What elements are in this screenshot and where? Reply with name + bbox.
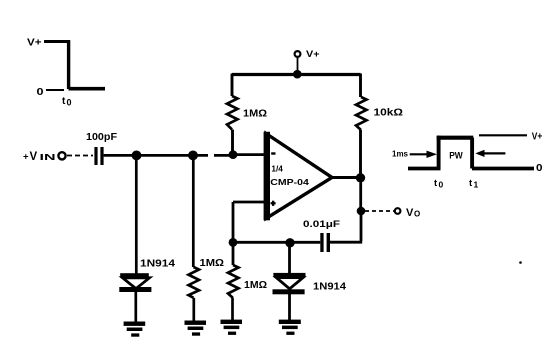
ground under R5 [221,320,243,335]
wire down to resistor R2 [192,155,195,267]
node junction at VO tap [357,207,366,216]
feedback wire capacitor to plus input node [233,241,320,244]
op-amp U1 left edge [264,132,270,221]
wire to VO terminal (dashed) [365,210,394,212]
svg-text:1: 1 [474,180,479,190]
svg-text:V: V [406,207,414,219]
svg-text:V: V [30,151,38,163]
wire resistor R5 to ground [231,298,234,320]
VO output terminal [395,208,401,214]
capacitor C2 plates [320,233,323,252]
V+ supply terminal [295,51,301,57]
op-amp U1 plus sign [271,201,276,206]
wire down to resistor R5 [232,242,235,265]
arrow pointing left at falling edge [475,150,505,157]
resistor R3 1M zigzag [227,96,238,130]
resistor R4 10k zigzag [356,97,367,130]
svg-text:0: 0 [536,163,543,174]
wire plus input down to feedback node [232,202,235,243]
output pulse rising edge [437,136,441,169]
svg-text:10kΩ: 10kΩ [374,107,404,119]
output pulse waveform baseline left [408,167,441,171]
svg-text:+: + [23,152,29,163]
resistor R2 1M zigzag [189,267,200,298]
diode D2 triangle [276,278,303,289]
resistor R5 1M zigzag [228,265,239,298]
svg-text:1MΩ: 1MΩ [244,279,267,291]
input step waveform falling edge [67,40,70,89]
wire from input terminal (dashed) [67,155,93,157]
svg-text:0: 0 [37,87,45,98]
ground under D2 [279,320,301,335]
node junction at diode D1 [132,151,142,161]
input step waveform top level line [44,40,69,43]
svg-text:V+: V+ [27,38,42,49]
svg-text:1N914: 1N914 [140,259,176,270]
wire signal line to comparator [104,153,266,157]
svg-text:1MΩ: 1MΩ [243,109,267,120]
svg-text:1N914: 1N914 [313,282,346,293]
wire diode D2 to ground [288,294,291,320]
arrow pointing right at rising edge [410,151,437,158]
output pulse top [437,136,474,140]
svg-text:IN: IN [40,152,56,162]
diode D1 cathode bar [119,287,151,292]
svg-text:V+: V+ [532,132,543,143]
wire output node down [359,178,362,211]
diode D1 triangle [123,278,150,289]
input step waveform zero axis tick [46,89,64,91]
svg-text:0: 0 [67,98,72,108]
+VIN input terminal [58,152,65,159]
output pulse baseline right [472,167,534,171]
svg-text:O: O [414,210,420,219]
wire plus input [233,201,266,204]
input step waveform bottom level line [69,87,106,91]
node junction on supply rail [293,70,302,79]
node junction at output [356,173,365,182]
node junction at feedback / R5 [229,238,238,247]
capacitor C1 100pF plates [94,147,97,165]
node junction at resistor R1 / minus input [229,150,238,159]
svg-text:0: 0 [439,180,444,190]
wire down to diode D2 [288,243,291,273]
svg-text:100pF: 100pF [86,131,118,143]
diode D2 cathode bar [273,289,305,294]
node junction at resistor R2 [188,151,198,161]
ground under R2 [185,321,207,336]
top supply rail wire [232,73,361,76]
svg-text:1MΩ: 1MΩ [200,258,225,269]
svg-text:CMP-04: CMP-04 [270,177,309,187]
wire rail down to resistor R3 [231,74,234,97]
diode D2 anode bar [273,273,305,277]
wire diode D1 to ground [134,292,137,322]
svg-text:1/4: 1/4 [271,163,283,173]
wire resistor R3 down to minus input node [231,130,234,155]
node junction at diode D2 [285,238,294,247]
wire VO node down and left to capacitor C2 [330,211,362,242]
op-amp U1 minus sign [271,152,275,154]
output waveform V+ level line [479,134,527,136]
svg-text:PW: PW [449,151,463,161]
diode D1 anode bar [120,273,149,277]
wire down to diode D1 [135,155,138,273]
wire op-amp output [332,176,360,179]
ground under D1 [124,322,146,337]
svg-text:1ms: 1ms [392,149,408,159]
wire V+ terminal down to rail [297,58,299,74]
op-amp U1 triangle body [266,134,332,219]
wire rail down to resistor R4 [359,74,362,98]
output pulse falling edge [470,138,474,169]
wire resistor R2 to ground [192,298,195,321]
wire resistor R4 down to output node [359,130,362,177]
svg-text:V+: V+ [306,49,320,60]
scan speck [519,261,522,264]
svg-text:0.01μF: 0.01μF [303,219,340,230]
